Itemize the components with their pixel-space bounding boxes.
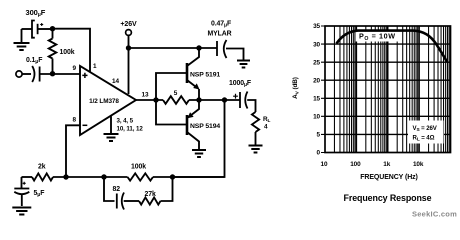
svg-text:10: 10 xyxy=(321,161,328,168)
wire pin13 output xyxy=(136,99,163,101)
svg-text:100: 100 xyxy=(350,161,361,168)
resistor R1 100k xyxy=(52,29,54,39)
svg-text:13: 13 xyxy=(142,92,149,99)
svg-text:30: 30 xyxy=(313,41,320,48)
wire feedback from output xyxy=(173,100,225,177)
svg-text:2k: 2k xyxy=(38,164,46,171)
svg-text:4: 4 xyxy=(264,124,268,131)
svg-text:10: 10 xyxy=(313,114,320,121)
input terminal xyxy=(16,71,22,77)
response curve Po=10W xyxy=(337,31,447,62)
svg-text:25: 25 xyxy=(313,59,320,66)
svg-text:5: 5 xyxy=(174,90,178,97)
emitter Q2 with arrow xyxy=(188,100,199,118)
node B (junction 0.1uF/100k/pin9) xyxy=(50,71,55,76)
wire base Q2 xyxy=(156,100,187,125)
svg-text:VS = 26V: VS = 26V xyxy=(413,125,438,133)
ground GND3 (0.47uF) xyxy=(237,61,250,68)
node A (junction 300uF/100k/pin1) xyxy=(50,26,55,31)
ground GND4 (Q2 collector) xyxy=(192,150,206,157)
wire +26V to pin14 xyxy=(128,35,130,94)
wire lower branch xyxy=(104,177,115,201)
collector Q1 xyxy=(187,48,199,66)
svg-text:82: 82 xyxy=(113,186,121,193)
svg-text:1: 1 xyxy=(93,63,97,70)
svg-text:10, 11, 12: 10, 11, 12 xyxy=(117,126,144,133)
svg-text:5μF: 5μF xyxy=(34,190,45,198)
svg-text:300μF: 300μF xyxy=(26,8,46,18)
svg-text:0.1μF: 0.1μF xyxy=(26,57,42,65)
svg-text:1000μF: 1000μF xyxy=(229,80,251,88)
ground GND1 (top left) xyxy=(21,29,23,42)
svg-text:NSP 5194: NSP 5194 xyxy=(190,123,220,130)
node D (feedback left) xyxy=(101,174,106,179)
svg-text:15: 15 xyxy=(313,95,320,102)
svg-text:10k: 10k xyxy=(413,161,424,168)
svg-text:14: 14 xyxy=(112,78,119,85)
svg-text:+26V: +26V xyxy=(120,21,137,28)
svg-text:8: 8 xyxy=(73,117,77,124)
svg-text:3, 4, 5: 3, 4, 5 xyxy=(117,118,134,125)
svg-text:NSP 5191: NSP 5191 xyxy=(190,72,220,79)
svg-text:SeekIC.com: SeekIC.com xyxy=(412,210,457,219)
capacitor C5 5uF xyxy=(23,182,26,185)
svg-text:35: 35 xyxy=(313,23,320,30)
svg-text:100k: 100k xyxy=(60,49,75,56)
ground GND6 (5uF) xyxy=(12,208,31,215)
op-amp U1 1/2 LM378 xyxy=(80,66,136,135)
svg-text:20: 20 xyxy=(313,77,320,84)
wire base Q1 xyxy=(156,73,187,100)
svg-text:1/2 LM378: 1/2 LM378 xyxy=(89,98,119,105)
frequency response chart xyxy=(334,26,449,153)
svg-text:100k: 100k xyxy=(131,164,146,171)
node C (+26V rail junction) xyxy=(126,45,131,50)
emitter Q1 with arrow xyxy=(187,80,198,89)
ground GND2 (op-amp pins) xyxy=(110,116,112,133)
svg-text:Frequency Response: Frequency Response xyxy=(344,193,432,203)
svg-text:1k: 1k xyxy=(383,161,390,168)
svg-text:9: 9 xyxy=(73,65,77,72)
svg-text:RL = 4Ω: RL = 4Ω xyxy=(413,135,435,143)
svg-text:FREQUENCY (Hz): FREQUENCY (Hz) xyxy=(360,174,418,181)
svg-text:MYLAR: MYLAR xyxy=(208,31,232,38)
wire +26V rail xyxy=(129,47,218,49)
svg-text:0.47μF: 0.47μF xyxy=(211,21,231,29)
svg-text:5: 5 xyxy=(317,132,321,139)
collector Q2 xyxy=(187,132,199,149)
node E (feedback right) xyxy=(170,174,175,179)
ground GND5 (load) xyxy=(249,146,263,153)
svg-text:0: 0 xyxy=(317,150,321,157)
wire to pin 1 xyxy=(53,29,91,72)
